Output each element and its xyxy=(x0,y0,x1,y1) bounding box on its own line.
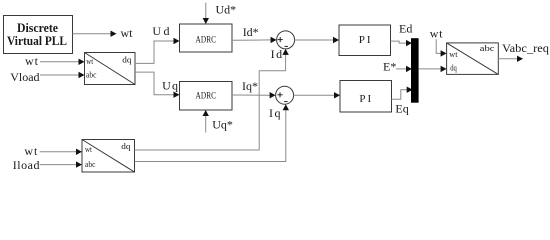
block U5: PI q-axis xyxy=(340,81,392,113)
wire: S1 to PI1 xyxy=(295,37,339,43)
wire Ud* setpoint into ADRC1 xyxy=(203,3,209,25)
svg-text:Iq: Iq xyxy=(269,106,282,120)
svg-text:Ud*: Ud* xyxy=(216,3,237,17)
wire Uq: transform X1 to ADRC2 xyxy=(135,72,180,98)
svg-text:Uq*: Uq* xyxy=(212,118,233,132)
svg-text:Id*: Id* xyxy=(243,25,259,39)
svg-text:Ed: Ed xyxy=(399,22,412,36)
block U2: ADRC d-axis xyxy=(180,24,233,52)
wire: PLL output to wt xyxy=(73,31,117,37)
svg-text:Iload: Iload xyxy=(13,158,40,172)
wire: Vload into transform xyxy=(40,72,85,78)
wire Vabc_req output xyxy=(498,56,523,62)
svg-text:wt: wt xyxy=(449,50,458,59)
block U3: PI d-axis xyxy=(339,25,391,56)
svg-text:Iq*: Iq* xyxy=(242,79,258,93)
wire Iq feedback: X3 to S2 xyxy=(135,104,290,161)
wire wt into dq-abc transform xyxy=(436,39,446,56)
svg-text:wt: wt xyxy=(85,145,93,154)
wire Iq*: ADRC2 to summing junction S2 xyxy=(232,92,276,98)
wire Id*: ADRC1 to summing junction S1 xyxy=(232,37,277,43)
svg-text:E*: E* xyxy=(383,59,396,73)
svg-text:Ud: Ud xyxy=(152,24,171,38)
svg-text:wt: wt xyxy=(86,57,94,66)
block U1: Discrete Virtual PLL xyxy=(4,16,73,54)
block U4: ADRC q-axis xyxy=(180,82,233,111)
block X3: abc to dq transform (Iload) xyxy=(82,140,135,173)
svg-text:dq: dq xyxy=(121,142,130,151)
svg-text:Eq: Eq xyxy=(395,102,408,116)
wire Eq: PI2 to mux bar xyxy=(392,87,413,100)
wire E* into mux bar xyxy=(396,66,412,72)
svg-text:wt: wt xyxy=(430,27,444,41)
wire wt into Iload transform xyxy=(40,149,82,155)
svg-text:wt: wt xyxy=(121,26,134,40)
svg-text:ADRC: ADRC xyxy=(196,36,217,46)
svg-text:P I: P I xyxy=(359,93,371,105)
svg-text:ADRC: ADRC xyxy=(196,91,217,101)
svg-text:wt: wt xyxy=(24,144,38,158)
svg-text:dq: dq xyxy=(122,55,131,64)
svg-text:Vload: Vload xyxy=(10,70,39,84)
svg-text:wt: wt xyxy=(25,54,39,68)
wire Id feedback: X3 to S1 xyxy=(135,49,289,150)
svg-text:Virtual PLL: Virtual PLL xyxy=(7,33,67,48)
wire Iload into transform xyxy=(40,161,82,167)
wire Ud: transform X1 to ADRC1 xyxy=(135,38,180,64)
wire: wt into Vload transform xyxy=(40,59,85,65)
block X2: dq to abc transform xyxy=(447,43,499,75)
summing junction S2 xyxy=(276,86,294,104)
svg-text:abc: abc xyxy=(85,160,96,169)
block X1: abc to dq transform (Vload) xyxy=(85,53,136,85)
svg-text:Vabc_req: Vabc_req xyxy=(502,41,549,55)
svg-text:Id: Id xyxy=(271,47,284,61)
svg-text:dq: dq xyxy=(450,63,457,72)
svg-text:Uq: Uq xyxy=(162,79,179,93)
mux bar xyxy=(411,38,419,103)
wire Uq* setpoint into ADRC2 xyxy=(203,110,209,133)
svg-text:abc: abc xyxy=(480,44,495,53)
summing junction S1 xyxy=(277,31,295,49)
wire: S2 to PI2 xyxy=(294,92,340,98)
svg-text:abc: abc xyxy=(86,71,97,80)
wire: mux bar to dq-abc transform xyxy=(419,66,447,72)
wire Ed: PI1 to mux bar xyxy=(391,40,413,46)
svg-text:P I: P I xyxy=(359,34,371,46)
